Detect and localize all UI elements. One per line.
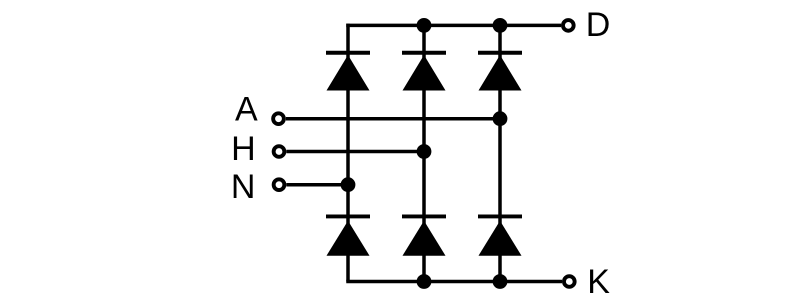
svg-text:N: N (231, 168, 256, 206)
svg-text:K: K (587, 263, 610, 301)
svg-text:D: D (586, 6, 611, 44)
svg-text:A: A (235, 90, 258, 128)
svg-text:H: H (231, 130, 256, 168)
